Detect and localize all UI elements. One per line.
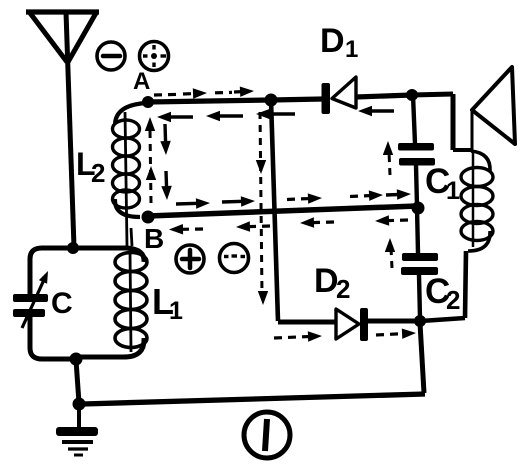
svg-text:2: 2 [336, 274, 350, 304]
svg-text:B: B [144, 223, 164, 254]
svg-text:2: 2 [446, 285, 460, 315]
svg-text:C: C [51, 287, 73, 320]
svg-text:2: 2 [91, 158, 105, 188]
svg-text:1: 1 [446, 177, 460, 205]
svg-text:1: 1 [345, 36, 358, 63]
svg-text:A: A [133, 68, 150, 95]
svg-text:D: D [320, 22, 345, 60]
svg-text:D: D [314, 262, 339, 300]
svg-text:1: 1 [169, 297, 183, 325]
